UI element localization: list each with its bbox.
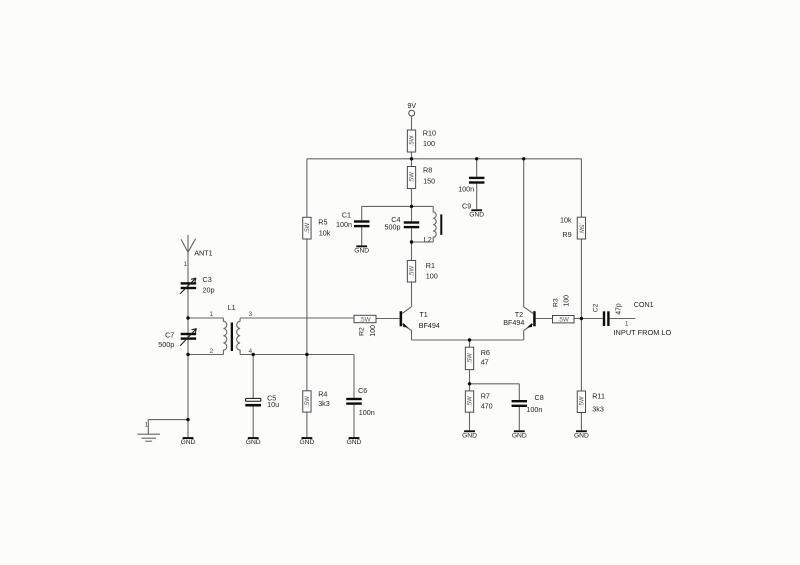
svg-text:R10: R10 xyxy=(423,128,436,137)
svg-text:GND: GND xyxy=(354,247,369,254)
svg-text:100: 100 xyxy=(564,295,571,307)
svg-text:.5W: .5W xyxy=(410,135,416,146)
svg-text:C8: C8 xyxy=(535,393,544,402)
svg-text:500p: 500p xyxy=(385,222,401,231)
svg-text:1: 1 xyxy=(184,261,188,268)
svg-text:100: 100 xyxy=(423,139,435,148)
svg-text:3k3: 3k3 xyxy=(318,399,330,408)
svg-text:100n: 100n xyxy=(458,184,474,193)
svg-text:GND: GND xyxy=(462,432,477,439)
svg-text:R2: R2 xyxy=(358,327,365,336)
svg-text:100n: 100n xyxy=(359,408,375,417)
svg-text:GND: GND xyxy=(299,439,314,446)
svg-text:.5W: .5W xyxy=(468,353,474,364)
svg-text:GND: GND xyxy=(469,211,484,218)
svg-text:C9: C9 xyxy=(462,201,471,210)
svg-text:R3: R3 xyxy=(553,298,560,307)
svg-text:R9: R9 xyxy=(562,230,571,239)
svg-text:47: 47 xyxy=(481,358,489,367)
svg-text:C7: C7 xyxy=(165,331,174,340)
svg-text:10k: 10k xyxy=(319,228,331,237)
svg-text:R1: R1 xyxy=(426,261,435,270)
svg-text:C6: C6 xyxy=(358,386,367,395)
svg-text:GND: GND xyxy=(574,432,589,439)
svg-text:GND: GND xyxy=(181,439,196,446)
svg-text:L1: L1 xyxy=(228,303,236,312)
svg-text:1: 1 xyxy=(625,320,629,327)
svg-text:47p: 47p xyxy=(615,303,622,315)
svg-text:R7: R7 xyxy=(481,391,490,400)
svg-text:R11: R11 xyxy=(592,391,605,400)
svg-text:GND: GND xyxy=(246,439,261,446)
svg-text:3: 3 xyxy=(248,311,252,318)
svg-text:.5W: .5W xyxy=(580,396,586,407)
svg-text:.5W: .5W xyxy=(577,223,583,234)
svg-text:150: 150 xyxy=(423,176,435,185)
svg-text:R5: R5 xyxy=(318,218,327,227)
svg-text:100: 100 xyxy=(370,325,377,337)
svg-text:R6: R6 xyxy=(481,348,490,357)
svg-text:3k3: 3k3 xyxy=(592,404,604,413)
svg-text:L2: L2 xyxy=(424,235,432,244)
svg-text:T1: T1 xyxy=(419,310,427,319)
svg-text:C1: C1 xyxy=(342,210,351,219)
svg-text:1: 1 xyxy=(209,311,213,318)
svg-text:GND: GND xyxy=(512,432,527,439)
svg-text:.5W: .5W xyxy=(359,316,370,323)
svg-text:BF494: BF494 xyxy=(503,318,524,327)
svg-text:100: 100 xyxy=(426,272,438,281)
svg-text:10u: 10u xyxy=(267,400,279,409)
svg-text:1: 1 xyxy=(145,421,149,428)
svg-text:.5W: .5W xyxy=(305,396,311,407)
svg-text:9V: 9V xyxy=(407,101,416,110)
svg-text:20p: 20p xyxy=(203,285,215,294)
svg-text:500p: 500p xyxy=(158,340,174,349)
svg-text:GND: GND xyxy=(347,439,362,446)
svg-text:CON1: CON1 xyxy=(634,300,654,309)
svg-text:C2: C2 xyxy=(593,303,600,312)
svg-text:.5W: .5W xyxy=(558,317,569,324)
svg-text:.5W: .5W xyxy=(410,172,416,183)
svg-text:2: 2 xyxy=(209,348,213,355)
svg-text:100n: 100n xyxy=(336,220,352,229)
svg-text:.5W: .5W xyxy=(305,222,311,233)
svg-text:4: 4 xyxy=(248,348,252,355)
svg-text:BF494: BF494 xyxy=(419,321,440,330)
svg-text:INPUT FROM LO: INPUT FROM LO xyxy=(614,328,672,337)
svg-text:.5W: .5W xyxy=(410,266,416,277)
svg-text:.5W: .5W xyxy=(468,396,474,407)
svg-text:10k: 10k xyxy=(560,216,572,225)
svg-text:R8: R8 xyxy=(423,166,432,175)
svg-text:C3: C3 xyxy=(203,275,212,284)
svg-text:100n: 100n xyxy=(526,405,542,414)
svg-text:ANT1: ANT1 xyxy=(194,249,212,258)
svg-text:R4: R4 xyxy=(318,389,327,398)
svg-text:470: 470 xyxy=(481,402,493,411)
